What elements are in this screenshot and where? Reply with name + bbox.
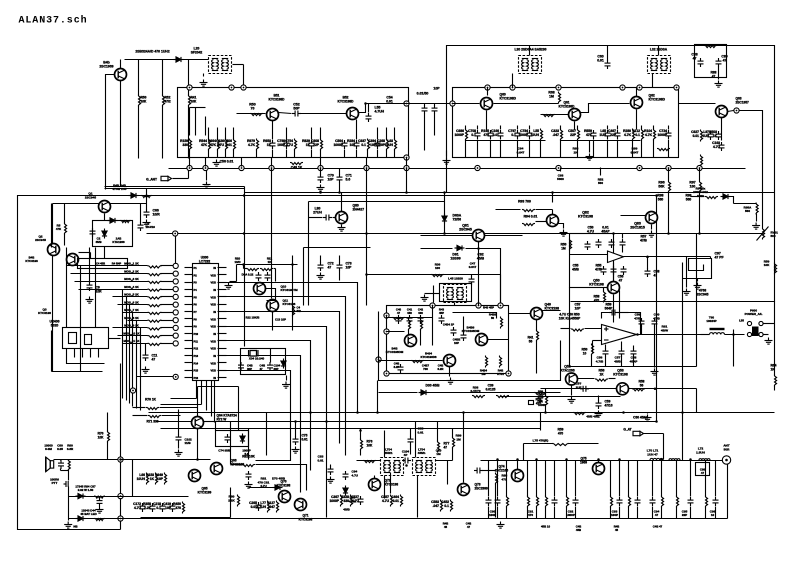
wire (523, 444, 525, 461)
wire (161, 404, 202, 406)
wire (500, 275, 502, 303)
capacitor (225, 434, 231, 443)
wire (536, 221, 547, 223)
wire (408, 330, 410, 335)
wire (339, 169, 341, 175)
resistor R88 (704, 46, 717, 48)
ground (586, 154, 594, 161)
wire (243, 65, 245, 88)
resistor (501, 317, 503, 329)
capacitor (58, 460, 64, 469)
wire (506, 461, 508, 497)
wire (60, 460, 62, 461)
wire (494, 103, 559, 105)
junction (443, 191, 446, 194)
resistor (148, 274, 162, 276)
wire (434, 114, 436, 136)
wire (161, 320, 174, 322)
transistor Q32 KTC3198 (476, 334, 488, 346)
resistor (260, 269, 273, 271)
wire (188, 171, 190, 179)
capacitor (337, 174, 343, 183)
transistor Q31 (444, 355, 456, 367)
svg-text:P14: P14 (194, 361, 199, 365)
wire (303, 248, 305, 306)
resistor R17 (642, 129, 644, 141)
wire (545, 389, 547, 396)
wire (95, 248, 97, 328)
wire (270, 349, 272, 363)
svg-text:G_ANT: G_ANT (146, 178, 157, 182)
wire (105, 186, 245, 188)
transistor Q66 (211, 463, 223, 475)
wire (206, 381, 208, 411)
transistor Q83 2SC1815 (646, 212, 658, 224)
wire (410, 334, 412, 336)
junction (338, 191, 341, 194)
wire (487, 88, 489, 96)
svg-text:R7610K: R7610K (367, 440, 374, 448)
wire (496, 209, 521, 211)
svg-text:C42400: C42400 (418, 308, 424, 316)
wire (356, 120, 358, 140)
wire (410, 429, 412, 437)
wire (272, 121, 274, 140)
transistor Q30 KTC3198 (405, 335, 417, 347)
wire (410, 445, 412, 455)
wire (624, 256, 711, 258)
wire (161, 304, 174, 306)
resistor R34 (537, 496, 539, 508)
wire (566, 461, 568, 497)
wire (690, 461, 692, 497)
svg-text:C4B45B: C4B45B (576, 525, 582, 533)
wire (54, 459, 121, 461)
transistor Q10 (254, 283, 266, 295)
capacitor (609, 310, 618, 316)
svg-text:P8: P8 (194, 317, 198, 321)
wire (527, 507, 529, 519)
diode D1 (108, 218, 118, 223)
wire (501, 396, 621, 398)
svg-text:D30 45/B: D30 45/B (426, 384, 441, 388)
diode D90 varicap (442, 214, 447, 224)
svg-text:12040 D4445 BAT LED: 12040 D4445 BAT LED (80, 509, 96, 517)
connector pin (759, 321, 763, 325)
resistor (537, 330, 539, 342)
svg-text:C60822P: C60822P (311, 139, 320, 147)
capacitor (580, 386, 589, 392)
svg-text:R12 10K/B: R12 10K/B (246, 316, 260, 320)
node row (173, 318, 178, 323)
wire (617, 140, 619, 158)
node on bus (404, 165, 409, 170)
wire (271, 169, 273, 299)
svg-text:VDD: VDD (211, 303, 217, 307)
capacitor (398, 364, 404, 373)
node N12 (450, 101, 455, 106)
ground (568, 397, 576, 404)
wire (52, 204, 54, 372)
wire (356, 150, 358, 158)
wire (575, 507, 577, 519)
svg-text:L45 10200: L45 10200 (448, 277, 463, 281)
capacitor C8 (488, 130, 494, 139)
wire (339, 256, 341, 263)
wire (64, 204, 66, 224)
wire (447, 46, 775, 302)
wire (536, 320, 538, 331)
resistor (148, 281, 162, 283)
wire (465, 140, 467, 158)
resistor R9 (368, 139, 370, 151)
capacitor C3 (309, 140, 315, 149)
pin (185, 333, 193, 335)
junction (243, 232, 246, 235)
wire (668, 192, 670, 234)
wire (490, 140, 492, 158)
pin (218, 311, 227, 313)
resistor R36 (567, 496, 569, 508)
resistor (546, 395, 548, 407)
transistor Q51 KTC3198 (267, 109, 279, 121)
wire (161, 428, 541, 430)
capacitor (603, 348, 609, 357)
capacitor (143, 352, 149, 361)
transistor Q60 2SC2026 (481, 98, 493, 110)
resistor (148, 305, 162, 307)
svg-text:R94 0.01: R94 0.01 (524, 215, 538, 219)
wire (617, 126, 619, 130)
wire (415, 422, 417, 458)
svg-text:IN: IN (213, 288, 216, 292)
svg-text:P11: P11 (194, 339, 199, 343)
trimmer (763, 228, 765, 240)
wire (478, 242, 480, 303)
junction (551, 191, 554, 194)
wire (341, 193, 343, 212)
resistor R35 (546, 496, 548, 508)
wire (517, 126, 519, 130)
wire (193, 264, 219, 381)
svg-text:C830.01: C830.01 (317, 455, 323, 463)
wire (231, 464, 242, 466)
transistor Q81 (473, 230, 485, 242)
resistor R11 (395, 139, 397, 151)
pin (185, 311, 193, 313)
transistor Q44 2SC1969 (115, 69, 127, 81)
wire (75, 281, 148, 283)
wire (245, 192, 775, 194)
resistor R22 (165, 473, 167, 485)
wire (156, 421, 657, 423)
wire (109, 338, 121, 340)
svg-text:D60A72/56: D60A72/56 (453, 214, 462, 222)
wire (178, 88, 409, 158)
pin (185, 377, 193, 379)
pin (218, 377, 227, 379)
capacitor C7 (475, 130, 481, 139)
resistor (139, 95, 141, 107)
svg-text:C4 45R: C4 45R (96, 262, 105, 266)
resistor (361, 439, 363, 451)
svg-text:C9522P: C9522P (682, 510, 688, 518)
wire (757, 227, 769, 241)
ground (648, 231, 656, 238)
svg-text:C750.01: C750.01 (302, 434, 308, 442)
wire (286, 376, 288, 381)
junction (612, 232, 615, 235)
wire (629, 388, 697, 390)
svg-text:R4110K: R4110K (191, 96, 198, 104)
resistor (559, 92, 561, 104)
node row (173, 279, 178, 284)
resistor (363, 461, 376, 463)
resistor (570, 239, 572, 251)
node (118, 516, 123, 521)
wire (384, 431, 386, 458)
svg-text:IN: IN (213, 332, 216, 336)
capacitor C9 (498, 130, 504, 139)
wire (294, 150, 296, 158)
wire (641, 327, 643, 335)
transistor Q75 2SC1969 (593, 463, 605, 475)
svg-text:C600.05: C600.05 (57, 444, 63, 452)
wire (106, 75, 115, 190)
resistor (573, 413, 586, 415)
svg-text:0.01/50: 0.01/50 (417, 92, 429, 96)
wire (622, 248, 624, 253)
wire (433, 286, 435, 303)
svg-text:R93 700: R93 700 (518, 200, 531, 204)
pin (185, 267, 193, 269)
resistor (534, 393, 547, 395)
wire (295, 422, 297, 437)
wire (161, 289, 174, 291)
svg-text:C5710P: C5710P (574, 303, 581, 311)
node on bus (239, 165, 244, 170)
wire (160, 407, 198, 409)
capacitor C11 (527, 130, 533, 139)
wire (89, 248, 91, 283)
capacitor (418, 315, 424, 324)
wire (524, 443, 553, 445)
transistor Q70 (279, 491, 291, 503)
capacitor (256, 272, 262, 281)
wire (132, 313, 134, 407)
wire (653, 140, 655, 158)
wire (320, 150, 322, 158)
resistor (453, 437, 455, 449)
wire (618, 312, 629, 314)
resistor (148, 343, 162, 345)
transformer L45 10.7M (444, 285, 467, 303)
junction (443, 232, 446, 235)
node N11 (674, 85, 679, 90)
wire (636, 88, 638, 97)
wire (125, 59, 209, 61)
transistor Q40 (531, 308, 543, 320)
resistor (148, 320, 162, 322)
inductor L71 (669, 459, 680, 460)
wire (536, 507, 538, 519)
node row (173, 271, 178, 276)
ground (86, 297, 94, 304)
wire (133, 407, 146, 409)
wire (216, 431, 249, 447)
wire (686, 257, 688, 288)
ground (694, 283, 702, 290)
transistor Q1 2SC945 (99, 201, 111, 213)
wire (560, 168, 562, 172)
diode D64 (76, 494, 86, 499)
svg-text:C5?1UF: C5?1UF (576, 382, 582, 390)
svg-text:R59470: R59470 (558, 428, 564, 436)
wire (577, 126, 579, 130)
resistor R33 (528, 496, 530, 508)
junction (291, 263, 294, 266)
wire (421, 248, 453, 250)
junction (365, 232, 368, 235)
svg-text:C93100P: C93100P (611, 510, 618, 518)
wire (99, 497, 101, 499)
inductor L70 (650, 458, 663, 460)
wire (230, 281, 237, 283)
wire (137, 376, 174, 378)
junction (356, 411, 359, 414)
resistor (775, 263, 777, 275)
transformer T20 455K (381, 458, 404, 476)
wire (764, 323, 775, 325)
node (130, 388, 135, 393)
wire (696, 463, 710, 476)
wire (444, 193, 446, 234)
wire (249, 487, 273, 489)
resistor R30 (441, 500, 443, 512)
svg-text:R5247/2: R5247/2 (165, 96, 171, 104)
wire (241, 349, 286, 375)
wire (384, 476, 386, 499)
wire (607, 46, 609, 61)
node N19 (376, 357, 381, 362)
wire (237, 113, 266, 115)
svg-text:C56 0.01: C56 0.01 (220, 160, 234, 164)
wire (243, 265, 245, 269)
svg-text:G_AT: G_AT (623, 428, 631, 432)
capacitor (474, 468, 483, 474)
pin (185, 296, 193, 298)
connector pin (747, 321, 751, 325)
capacitor C10 (515, 130, 521, 139)
junction (365, 273, 368, 276)
svg-text:R5910K: R5910K (764, 260, 770, 268)
wire (654, 335, 656, 368)
svg-text:P3: P3 (194, 281, 198, 285)
wire (559, 224, 564, 229)
wire (552, 193, 554, 203)
resistor (592, 344, 594, 356)
transistor Q2 (48, 244, 60, 256)
node on bus (203, 165, 208, 170)
resistor (148, 336, 162, 338)
pin (218, 326, 227, 328)
pin (218, 267, 227, 269)
wire (140, 328, 142, 411)
resistor R39 (662, 496, 664, 508)
resistor (486, 356, 488, 368)
svg-text:C8574.7U: C8574.7U (381, 495, 390, 503)
wire (619, 507, 621, 519)
ground (644, 415, 652, 422)
node on bus (475, 165, 480, 170)
capacitor (631, 348, 637, 357)
transistor Q65 (189, 470, 201, 482)
wire (682, 421, 684, 461)
inductor L72 (699, 459, 710, 460)
diode D65 (76, 516, 86, 521)
wire (574, 122, 576, 130)
resistor (290, 163, 303, 165)
capacitor (596, 239, 602, 248)
capacitor C22 (160, 503, 166, 512)
pin (218, 282, 227, 284)
pin (185, 274, 193, 276)
wire (570, 254, 608, 256)
resistor (496, 473, 498, 485)
wire (377, 150, 379, 158)
wire (205, 421, 216, 423)
svg-text:C4B8.2P: C4B8.2P (394, 362, 400, 370)
wire (545, 507, 547, 519)
wire (636, 110, 638, 130)
node row (173, 263, 178, 268)
capacitor (293, 436, 299, 445)
connector pin (759, 332, 763, 336)
wire (161, 273, 174, 275)
capacitor C19 (318, 174, 324, 183)
wire (637, 507, 639, 519)
wire (107, 442, 109, 460)
wire (233, 150, 235, 158)
wire (506, 507, 508, 519)
junction (462, 411, 465, 414)
wire (727, 465, 729, 519)
capacitor (343, 471, 349, 480)
wire (311, 150, 313, 158)
wire (118, 335, 148, 337)
capacitor C15 (666, 130, 672, 139)
transistor Q74 2SC2166 (512, 470, 524, 482)
capacitor (408, 436, 414, 445)
wire (53, 203, 147, 205)
node N18 (384, 329, 389, 334)
wire (478, 302, 480, 306)
svg-text:C600.01: C600.01 (597, 55, 604, 63)
wire (120, 60, 122, 69)
svg-text:C41910P: C41910P (163, 502, 172, 510)
pin (218, 304, 227, 306)
wire (286, 150, 288, 158)
wire (78, 259, 128, 269)
wire (379, 312, 561, 381)
svg-text:P9: P9 (194, 325, 198, 329)
svg-text:P5: P5 (194, 295, 198, 299)
wire (607, 126, 609, 130)
junction (636, 333, 639, 336)
wire (178, 443, 180, 449)
wire (162, 415, 181, 417)
node on bus (697, 165, 702, 170)
